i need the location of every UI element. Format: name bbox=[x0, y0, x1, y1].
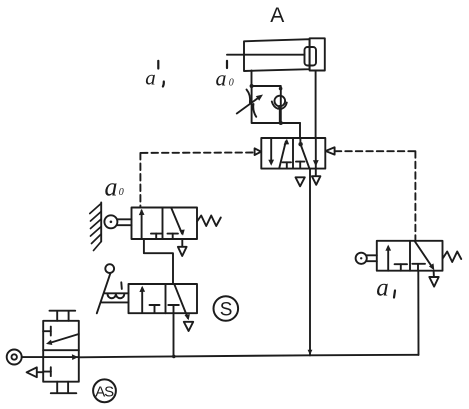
svg-text:0: 0 bbox=[119, 187, 124, 198]
svg-text:AS: AS bbox=[95, 383, 114, 400]
svg-text:a: a bbox=[145, 66, 156, 90]
svg-text:a: a bbox=[216, 65, 227, 90]
svg-text:A: A bbox=[270, 4, 284, 27]
svg-text:a: a bbox=[105, 173, 118, 202]
svg-text:a: a bbox=[376, 274, 389, 301]
svg-text:0: 0 bbox=[229, 78, 234, 89]
svg-text:S: S bbox=[220, 299, 233, 320]
